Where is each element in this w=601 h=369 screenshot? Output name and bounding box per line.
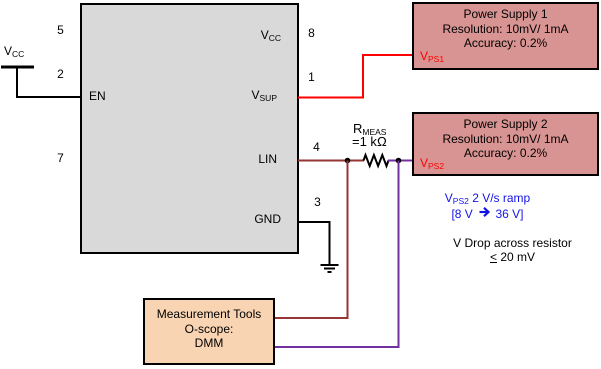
resistor RMEAS zigzag xyxy=(364,155,389,166)
resistor RMEAS value label xyxy=(353,122,386,136)
pin number 4 xyxy=(309,140,324,154)
wire VCC rail to EN (vertical) xyxy=(16,66,18,97)
pin number 8 xyxy=(304,26,319,40)
pin label GND (pin 3) xyxy=(200,212,281,226)
junction dot right of resistor xyxy=(396,158,402,164)
VCC supply rail bar xyxy=(1,66,34,69)
power supply PS1 box xyxy=(412,2,599,70)
junction dot left of resistor xyxy=(345,158,351,164)
pin label VCC (pin 8) xyxy=(200,28,281,42)
measurement tools box xyxy=(143,298,275,365)
pin label VSUP (pin 1) xyxy=(200,88,277,102)
wire junction to measurement tools (purple, vertical+horizontal) xyxy=(275,161,399,348)
pin number 3 xyxy=(310,195,325,209)
wire VSUP pin 1 to PS1 (red net) xyxy=(298,55,412,98)
op-amp U1 : DUT IC body (gray box) xyxy=(80,3,299,254)
pin number 7 xyxy=(53,151,68,165)
wire to EN pin 2 (horizontal) xyxy=(16,96,81,98)
ground symbol xyxy=(321,265,339,272)
pin number 5 xyxy=(53,23,68,37)
wire GND pin 3 to ground xyxy=(298,222,330,265)
wire LIN pin 4 to resistor (dark red net) xyxy=(298,160,364,162)
power supply PS2 box xyxy=(412,112,599,176)
node VCC supply label (top left) xyxy=(4,44,24,58)
pin number 1 xyxy=(304,70,319,84)
node VPS2 label xyxy=(420,156,444,170)
wire resistor to PS2 (purple net) xyxy=(388,160,412,162)
node VPS1 label xyxy=(420,49,444,63)
pin number 2 xyxy=(53,67,68,81)
note: VPS2 ramp annotation (blue) xyxy=(407,190,568,222)
pin label EN (pin 2) xyxy=(89,89,106,103)
wire junction to measurement tools (dark red, vertical+horizontal) xyxy=(275,161,348,319)
ramp arrow glyph in blue note xyxy=(480,208,489,216)
pin label LIN (pin 4) xyxy=(200,152,277,166)
note: V drop annotation xyxy=(432,236,593,264)
